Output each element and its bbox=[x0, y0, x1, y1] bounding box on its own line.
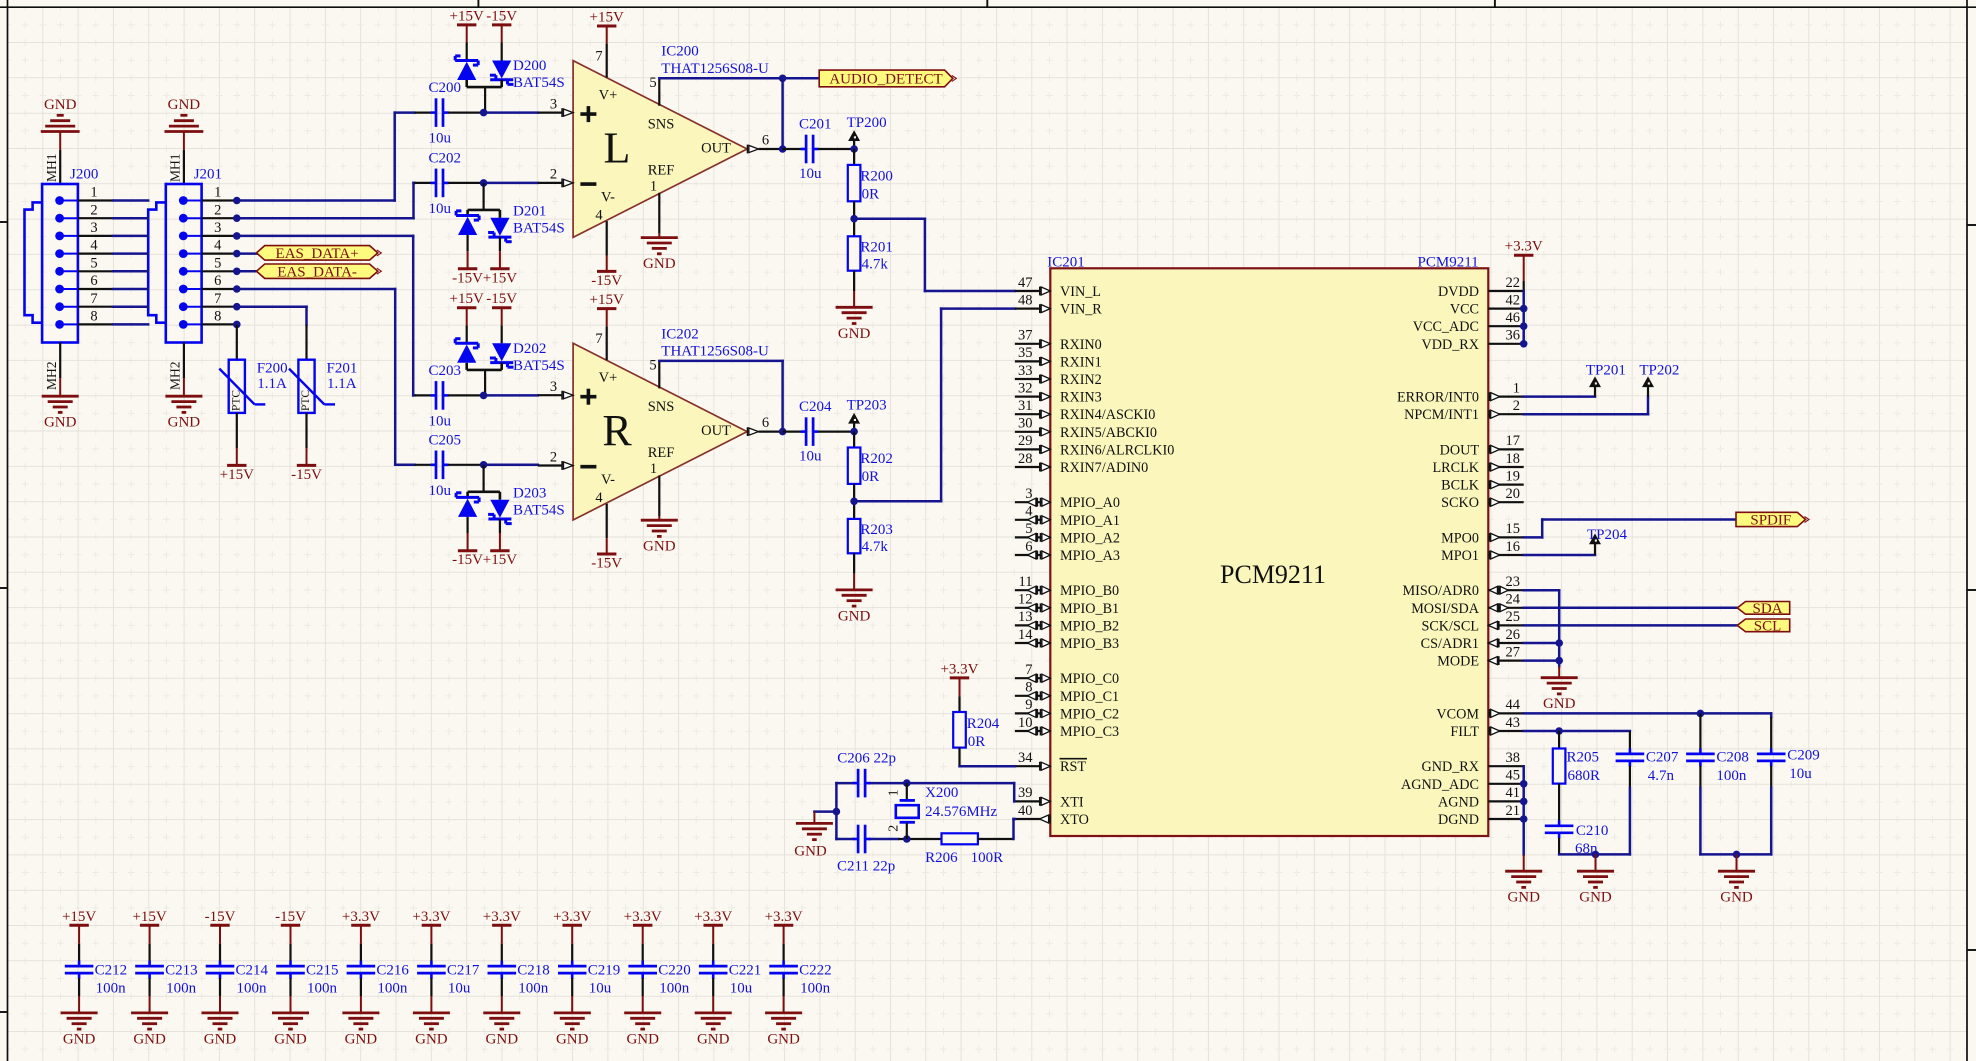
svg-text:4: 4 bbox=[595, 490, 603, 506]
junction R202/R203 (VIN_R tap) bbox=[850, 498, 858, 506]
svg-text:3: 3 bbox=[90, 220, 97, 236]
ground GND below C213 bbox=[131, 1012, 168, 1015]
diode D200 BAT54S bbox=[455, 59, 478, 62]
wire net row7 J200-J201 bbox=[113, 305, 148, 308]
svg-text:MPIO_A2: MPIO_A2 bbox=[1060, 530, 1120, 546]
svg-text:GND: GND bbox=[486, 1031, 519, 1047]
svg-text:6: 6 bbox=[214, 273, 221, 289]
capacitor C213 100n bbox=[149, 925, 151, 944]
svg-text:100n: 100n bbox=[166, 980, 197, 996]
svg-text:14: 14 bbox=[1018, 627, 1033, 643]
svg-text:10u: 10u bbox=[730, 980, 753, 996]
pin 42 VCC of IC201 bbox=[1488, 308, 1523, 310]
junction row4 bbox=[233, 250, 241, 258]
wire C202 to op-amp input bbox=[484, 182, 538, 185]
svg-text:1: 1 bbox=[650, 178, 657, 194]
power -15V below IC202 bbox=[606, 538, 608, 554]
svg-text:19: 19 bbox=[1506, 468, 1521, 484]
svg-text:RST: RST bbox=[1060, 759, 1086, 775]
svg-text:C220: C220 bbox=[658, 962, 691, 978]
svg-text:AGND: AGND bbox=[1438, 794, 1479, 810]
svg-text:R204: R204 bbox=[967, 716, 1000, 732]
svg-text:REF: REF bbox=[648, 162, 675, 178]
wire R206 to XTO bbox=[978, 838, 1014, 840]
pin 19 BCLK of IC201 bbox=[1488, 484, 1523, 486]
svg-text:27: 27 bbox=[1506, 644, 1521, 660]
svg-text:BAT54S: BAT54S bbox=[513, 358, 565, 374]
svg-text:D201: D201 bbox=[513, 203, 546, 219]
pin 17 DOUT of IC201 bbox=[1488, 448, 1523, 450]
pin 7 of J201 bbox=[179, 302, 188, 311]
svg-text:BAT54S: BAT54S bbox=[513, 220, 565, 236]
junction D202 to cap bbox=[480, 392, 488, 400]
svg-text:10u: 10u bbox=[1789, 766, 1812, 782]
sheet grid bbox=[24, 7, 26, 1061]
svg-text:MODE: MODE bbox=[1437, 654, 1479, 670]
svg-text:3: 3 bbox=[550, 379, 557, 395]
op-amp IC202 R bbox=[573, 343, 747, 520]
pin 6 (OUT) of IC200 bbox=[749, 145, 759, 152]
pin 8 of J200 bbox=[55, 320, 64, 329]
port EAS_DATA+ bbox=[257, 246, 378, 261]
svg-text:2: 2 bbox=[1513, 398, 1520, 414]
svg-text:GND: GND bbox=[44, 415, 77, 431]
pin 35 RXIN1 of IC201 bbox=[1015, 360, 1050, 362]
power +3.3V above R204 bbox=[950, 676, 969, 679]
ground GND below C218 bbox=[483, 1012, 520, 1015]
svg-text:C211 22p: C211 22p bbox=[837, 859, 895, 875]
diode D203 BAT54S bbox=[483, 465, 485, 492]
pin 44 VCOM of IC201 bbox=[1488, 712, 1523, 714]
wire R204 to RST pin 34 bbox=[960, 765, 1015, 768]
ground GND below C216 bbox=[342, 1012, 379, 1015]
svg-text:40: 40 bbox=[1018, 803, 1033, 819]
svg-text:10u: 10u bbox=[429, 413, 452, 429]
pin 29 RXIN6/ALRCLKI0 of IC201 bbox=[1015, 448, 1050, 450]
svg-text:IC200: IC200 bbox=[661, 44, 699, 60]
svg-text:PTC: PTC bbox=[230, 390, 242, 411]
pin 30 RXIN5/ABCKI0 of IC201 bbox=[1015, 431, 1050, 433]
svg-text:AGND_ADC: AGND_ADC bbox=[1401, 777, 1479, 793]
svg-text:C205: C205 bbox=[429, 432, 462, 448]
svg-text:100n: 100n bbox=[96, 980, 127, 996]
svg-text:-15V: -15V bbox=[452, 270, 483, 286]
svg-text:7: 7 bbox=[214, 291, 221, 307]
wire SNS feedback of IC202 bbox=[659, 360, 782, 363]
svg-text:1.1A: 1.1A bbox=[257, 376, 287, 392]
svg-text:R: R bbox=[602, 406, 632, 455]
wire MH2 stem of J201 bbox=[183, 343, 185, 379]
fuse F200 PTC 1.1A bbox=[236, 325, 238, 360]
svg-text:R200: R200 bbox=[860, 168, 893, 184]
svg-text:4.7n: 4.7n bbox=[1648, 768, 1675, 784]
svg-text:R203: R203 bbox=[860, 522, 893, 538]
IC U IC201 PCM9211 body bbox=[1050, 268, 1488, 836]
wire row8 to F200 bbox=[233, 321, 241, 329]
svg-text:25: 25 bbox=[1506, 609, 1521, 625]
wire MPO0 to SPDIF bbox=[1524, 536, 1543, 539]
pin 5 (SNS) of IC202 bbox=[658, 361, 660, 389]
pin 4 (V-) of IC202 bbox=[606, 504, 608, 538]
wire net row1 J200-J201 bbox=[113, 199, 148, 202]
power +15V below F200 bbox=[227, 464, 246, 467]
pin 7 MPIO_C0 of IC201 bbox=[1015, 677, 1050, 679]
ground GND below J201 (MH2) bbox=[165, 395, 202, 398]
svg-text:RXIN1: RXIN1 bbox=[1060, 354, 1102, 370]
svg-text:TP201: TP201 bbox=[1586, 363, 1626, 379]
svg-text:C204: C204 bbox=[799, 399, 832, 415]
pin 3 MPIO_A0 of IC201 bbox=[1015, 501, 1050, 503]
svg-text:BAT54S: BAT54S bbox=[513, 502, 565, 518]
wire VCOM gnd rail bbox=[1700, 853, 1771, 856]
svg-text:SNS: SNS bbox=[648, 116, 675, 132]
ground GND below J200 (MH2) bbox=[42, 395, 79, 398]
svg-text:45: 45 bbox=[1506, 768, 1521, 784]
pin 20 SCKO of IC201 bbox=[1488, 501, 1523, 503]
pin 4 (V-) of IC200 bbox=[606, 221, 608, 255]
power -15V below IC200 bbox=[606, 256, 608, 272]
capacitor C202 10u bbox=[415, 182, 432, 184]
svg-text:V+: V+ bbox=[599, 370, 618, 386]
wire SCK/SCL to port bbox=[1524, 624, 1738, 627]
svg-text:+15V: +15V bbox=[483, 552, 517, 568]
svg-text:GND: GND bbox=[168, 97, 201, 113]
svg-text:THAT1256S08-U: THAT1256S08-U bbox=[661, 61, 769, 77]
svg-text:C212: C212 bbox=[95, 962, 128, 978]
svg-text:J200: J200 bbox=[70, 167, 98, 183]
svg-text:-15V: -15V bbox=[205, 909, 236, 925]
svg-text:C206 22p: C206 22p bbox=[837, 750, 896, 766]
svg-text:2: 2 bbox=[887, 825, 902, 832]
svg-text:MH1: MH1 bbox=[168, 153, 183, 182]
svg-text:GND: GND bbox=[767, 1031, 800, 1047]
svg-text:SNS: SNS bbox=[648, 399, 675, 415]
svg-text:16: 16 bbox=[1506, 539, 1521, 555]
svg-text:2: 2 bbox=[90, 202, 97, 218]
svg-text:17: 17 bbox=[1506, 433, 1521, 449]
diode D202 BAT54S bbox=[455, 342, 478, 345]
power -15V below D201 bbox=[458, 267, 477, 270]
pin 15 MPO0 of IC201 bbox=[1488, 536, 1523, 538]
svg-text:GND: GND bbox=[345, 1031, 378, 1047]
capacitor C205 10u bbox=[415, 464, 432, 466]
svg-text:4: 4 bbox=[595, 208, 603, 224]
svg-text:46: 46 bbox=[1506, 310, 1521, 326]
junction AGND bbox=[1520, 798, 1528, 806]
pin 39 XTI of IC201 bbox=[1015, 800, 1050, 802]
capacitor C217 10u bbox=[430, 925, 432, 944]
svg-text:MISO/ADR0: MISO/ADR0 bbox=[1403, 583, 1479, 599]
pin 38 GND_RX of IC201 bbox=[1488, 765, 1523, 767]
port AUDIO_DETECT bbox=[783, 77, 820, 80]
pin 5 of J200 bbox=[55, 267, 64, 276]
svg-text:47: 47 bbox=[1018, 275, 1033, 291]
svg-text:3: 3 bbox=[1025, 486, 1032, 502]
pin 8 MPIO_C1 of IC201 bbox=[1015, 695, 1050, 697]
ground GND above J200 (MH1) bbox=[41, 130, 80, 133]
svg-text:VCC: VCC bbox=[1450, 302, 1479, 318]
ground GND below R201 bbox=[836, 306, 873, 309]
svg-text:MPIO_B1: MPIO_B1 bbox=[1060, 601, 1119, 617]
svg-text:33: 33 bbox=[1018, 363, 1033, 379]
svg-text:D202: D202 bbox=[513, 341, 546, 357]
pin 1 ERROR/INT0 of IC201 bbox=[1488, 396, 1523, 398]
junction D203 from cap bbox=[480, 461, 488, 469]
power +15V above D202 bbox=[457, 306, 476, 309]
capacitor C204 10u bbox=[783, 431, 802, 433]
capacitor C207 4.7n bbox=[1616, 753, 1645, 756]
svg-text:F200: F200 bbox=[257, 360, 288, 376]
svg-text:BCLK: BCLK bbox=[1441, 478, 1480, 494]
wire C203 to op-amp input bbox=[484, 394, 538, 397]
svg-text:MPO0: MPO0 bbox=[1441, 530, 1479, 546]
pin 27 MODE of IC201 bbox=[1488, 659, 1523, 661]
svg-text:6: 6 bbox=[762, 415, 769, 431]
ground GND above J201 (MH1) bbox=[165, 130, 204, 133]
junction row1 bbox=[233, 197, 241, 205]
pin 1 (REF) of IC200 bbox=[658, 193, 660, 234]
wire row4 to EAS_DATA+ bbox=[237, 252, 257, 255]
svg-text:VIN_L: VIN_L bbox=[1060, 284, 1101, 300]
svg-text:DOUT: DOUT bbox=[1440, 442, 1480, 458]
pin 5 (SNS) of IC200 bbox=[658, 78, 660, 106]
svg-text:10u: 10u bbox=[589, 980, 612, 996]
junction row6 bbox=[233, 285, 241, 293]
wire VCOM net bbox=[1524, 712, 1772, 715]
power -15V above C215 bbox=[281, 924, 300, 927]
pin 6 of J200 bbox=[55, 285, 64, 294]
pin 6 MPIO_A3 of IC201 bbox=[1015, 554, 1050, 556]
junction VCOM gnd rail bbox=[1733, 851, 1741, 859]
capacitor C219 10u bbox=[571, 925, 573, 944]
junction crystal pin1 bbox=[903, 779, 911, 787]
svg-text:4.7k: 4.7k bbox=[862, 256, 889, 272]
pin 13 MPIO_B2 of IC201 bbox=[1015, 624, 1050, 626]
ground GND below C215 bbox=[272, 1012, 309, 1015]
svg-text:GND: GND bbox=[44, 97, 77, 113]
wire C209 branch bbox=[1770, 713, 1773, 717]
wire DVDD/VCC/VCC_ADC/VDD_RX rail bbox=[1522, 291, 1525, 344]
svg-text:+15V: +15V bbox=[450, 291, 484, 307]
svg-text:100n: 100n bbox=[377, 980, 408, 996]
svg-text:1: 1 bbox=[214, 185, 221, 201]
pin 47 VIN_L of IC201 bbox=[1015, 290, 1050, 292]
svg-text:-15V: -15V bbox=[486, 8, 517, 24]
pin 23 MISO/ADR0 of IC201 bbox=[1488, 589, 1523, 591]
crystal X200 24.576MHz bbox=[906, 783, 908, 799]
svg-text:18: 18 bbox=[1506, 451, 1521, 467]
svg-text:MPIO_B0: MPIO_B0 bbox=[1060, 583, 1119, 599]
svg-text:MPIO_A0: MPIO_A0 bbox=[1060, 495, 1120, 511]
svg-text:100n: 100n bbox=[1716, 768, 1747, 784]
svg-text:10u: 10u bbox=[429, 483, 452, 499]
svg-text:+3.3V: +3.3V bbox=[412, 909, 450, 925]
svg-text:XTI: XTI bbox=[1060, 794, 1084, 810]
svg-text:R201: R201 bbox=[860, 240, 893, 256]
pin 24 MOSI/SDA of IC201 bbox=[1488, 607, 1523, 609]
svg-text:-15V: -15V bbox=[486, 291, 517, 307]
svg-text:CS/ADR1: CS/ADR1 bbox=[1421, 636, 1479, 652]
svg-text:C216: C216 bbox=[376, 962, 409, 978]
junction row3 bbox=[233, 232, 241, 240]
svg-text:1: 1 bbox=[650, 461, 657, 477]
svg-text:GND: GND bbox=[415, 1031, 448, 1047]
pin 3 (+) of IC200 bbox=[538, 111, 562, 113]
capacitor C216 100n bbox=[360, 925, 362, 944]
svg-text:RXIN3: RXIN3 bbox=[1060, 390, 1102, 406]
pin 6 of J201 bbox=[179, 285, 188, 294]
svg-text:31: 31 bbox=[1018, 398, 1033, 414]
svg-text:41: 41 bbox=[1506, 785, 1521, 801]
wire VIN_L to PCM9211 pin 47 bbox=[854, 217, 925, 220]
svg-text:TP202: TP202 bbox=[1639, 363, 1679, 379]
svg-text:MH1: MH1 bbox=[44, 153, 59, 182]
pin 7 (V+) of IC200 bbox=[606, 44, 608, 78]
pin 7 of J200 bbox=[55, 302, 64, 311]
resistor R202 0R bbox=[853, 432, 855, 448]
junction crystal pin2 bbox=[903, 835, 911, 843]
svg-text:V-: V- bbox=[601, 472, 615, 488]
svg-text:0R: 0R bbox=[968, 734, 986, 750]
svg-text:+3.3V: +3.3V bbox=[624, 909, 662, 925]
svg-text:100n: 100n bbox=[237, 980, 268, 996]
svg-text:MPIO_A3: MPIO_A3 bbox=[1060, 548, 1120, 564]
port EAS_DATA- bbox=[257, 264, 378, 278]
pin 14 MPIO_B3 of IC201 bbox=[1015, 642, 1050, 644]
svg-text:28: 28 bbox=[1018, 451, 1033, 467]
svg-text:MH2: MH2 bbox=[44, 361, 59, 390]
svg-text:10u: 10u bbox=[799, 166, 822, 182]
svg-text:5: 5 bbox=[1025, 521, 1032, 537]
svg-text:ERROR/INT0: ERROR/INT0 bbox=[1397, 390, 1479, 406]
wire net row4 J200-J201 bbox=[113, 252, 148, 255]
svg-text:C207: C207 bbox=[1646, 750, 1679, 766]
junction OUT of IC200 bbox=[779, 145, 787, 153]
pin 21 DGND of IC201 bbox=[1488, 818, 1523, 820]
svg-text:1: 1 bbox=[887, 789, 902, 796]
wire row3 to C203 (R+ input) bbox=[237, 235, 413, 238]
wire F200 to power bbox=[236, 413, 238, 448]
wire SNS feedback of IC200 bbox=[659, 77, 782, 80]
svg-text:R202: R202 bbox=[860, 451, 893, 467]
svg-text:3: 3 bbox=[214, 220, 221, 236]
svg-text:+15V: +15V bbox=[62, 909, 96, 925]
svg-text:X200: X200 bbox=[925, 785, 958, 801]
svg-text:MPIO_B2: MPIO_B2 bbox=[1060, 618, 1119, 634]
capacitor C218 100n bbox=[501, 925, 503, 944]
svg-text:GND: GND bbox=[274, 1031, 307, 1047]
svg-text:PCM9211: PCM9211 bbox=[1418, 255, 1479, 271]
svg-text:VCOM: VCOM bbox=[1436, 706, 1479, 722]
ground GND below R203 bbox=[836, 589, 873, 592]
resistor R205 680R bbox=[1558, 731, 1560, 749]
svg-text:10u: 10u bbox=[429, 131, 452, 147]
svg-text:C217: C217 bbox=[447, 962, 480, 978]
svg-text:OUT: OUT bbox=[701, 423, 731, 439]
ground GND below R205/C210/C207 bbox=[1577, 870, 1614, 873]
svg-text:VIN_R: VIN_R bbox=[1060, 302, 1102, 318]
junction VCC bbox=[1520, 305, 1528, 313]
connector J200 bbox=[42, 184, 78, 343]
svg-text:GND: GND bbox=[838, 326, 871, 342]
svg-text:10u: 10u bbox=[429, 201, 452, 217]
svg-text:10u: 10u bbox=[448, 980, 471, 996]
svg-text:11: 11 bbox=[1019, 574, 1033, 590]
svg-text:RXIN7/ADIN0: RXIN7/ADIN0 bbox=[1060, 460, 1148, 476]
svg-text:BAT54S: BAT54S bbox=[513, 75, 565, 91]
pin 25 SCK/SCL of IC201 bbox=[1488, 624, 1523, 626]
pin 2 of J201 bbox=[179, 214, 188, 223]
svg-text:100n: 100n bbox=[659, 980, 690, 996]
wire XTI net (top rail) bbox=[836, 782, 853, 785]
junction D200 to cap bbox=[480, 109, 488, 117]
power +15V above C213 bbox=[140, 924, 159, 927]
svg-text:6: 6 bbox=[90, 273, 97, 289]
svg-text:15: 15 bbox=[1506, 521, 1521, 537]
power -15V above C214 bbox=[210, 924, 229, 927]
svg-text:38: 38 bbox=[1506, 750, 1521, 766]
svg-text:IC202: IC202 bbox=[661, 326, 699, 342]
svg-text:2: 2 bbox=[550, 167, 557, 183]
svg-text:13: 13 bbox=[1018, 609, 1033, 625]
wire MH2 stem of J200 bbox=[59, 343, 61, 379]
svg-text:GND: GND bbox=[794, 843, 827, 859]
wire row5 to EAS_DATA- bbox=[237, 270, 257, 273]
svg-text:TP204: TP204 bbox=[1587, 527, 1628, 543]
pin 7 (V+) of IC202 bbox=[606, 326, 608, 360]
power +3.3V above C218 bbox=[492, 924, 511, 927]
svg-text:1: 1 bbox=[1513, 380, 1520, 396]
svg-text:+15V: +15V bbox=[483, 270, 517, 286]
svg-text:MPO1: MPO1 bbox=[1441, 548, 1479, 564]
svg-text:8: 8 bbox=[90, 309, 97, 325]
svg-text:4: 4 bbox=[90, 238, 98, 254]
svg-text:100R: 100R bbox=[971, 850, 1004, 866]
junction row5 bbox=[233, 268, 241, 276]
pin 16 MPO1 of IC201 bbox=[1488, 554, 1523, 556]
svg-text:21: 21 bbox=[1506, 803, 1521, 819]
svg-text:32: 32 bbox=[1018, 380, 1033, 396]
junction DGND bbox=[1520, 815, 1528, 823]
pin 3 of J201 bbox=[179, 232, 188, 241]
svg-text:+15V: +15V bbox=[132, 909, 166, 925]
pin 2 (-) of IC202 bbox=[538, 464, 562, 466]
pin 1 of J200 bbox=[55, 196, 64, 205]
svg-text:THAT1256S08-U: THAT1256S08-U bbox=[661, 344, 769, 360]
wire CS/ADR1 to rail bbox=[1524, 642, 1560, 645]
wire MISO/ADR0 mode-strap rail bbox=[1524, 589, 1560, 592]
junction AGND_ADC bbox=[1520, 780, 1528, 788]
svg-text:D200: D200 bbox=[513, 58, 546, 74]
ground GND below C214 bbox=[202, 1012, 239, 1015]
svg-text:NPCM/INT1: NPCM/INT1 bbox=[1404, 407, 1479, 423]
svg-text:EAS_DATA+: EAS_DATA+ bbox=[276, 246, 359, 262]
port SDA bbox=[1737, 602, 1789, 615]
svg-text:6: 6 bbox=[1025, 539, 1032, 555]
ground GND left of crystal bbox=[796, 822, 833, 825]
svg-text:V-: V- bbox=[601, 189, 615, 205]
pin 5 of J201 bbox=[179, 267, 188, 276]
svg-text:+3.3V: +3.3V bbox=[342, 909, 380, 925]
pin 8 of J201 bbox=[179, 320, 188, 329]
svg-text:C213: C213 bbox=[165, 962, 198, 978]
svg-text:2: 2 bbox=[550, 449, 557, 465]
svg-text:AUDIO_DETECT: AUDIO_DETECT bbox=[829, 72, 942, 88]
pin 40 XTO of IC201 bbox=[1015, 818, 1050, 820]
wire C207 branch bbox=[1629, 731, 1631, 749]
ground GND below REF of IC200 bbox=[641, 236, 678, 239]
junction row2 bbox=[233, 214, 241, 222]
